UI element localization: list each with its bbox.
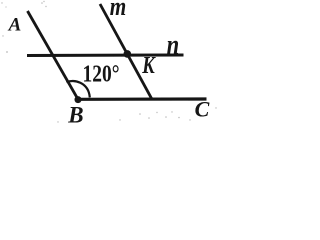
svg-text:120°: 120° (83, 61, 120, 87)
svg-text:C: C (195, 96, 210, 121)
svg-text:A: A (8, 15, 22, 36)
angle arc at B (67, 81, 90, 97)
line AB (transversal from A down to B) (28, 11, 79, 99)
svg-text:m: m (110, 0, 127, 21)
line m (transversal from top through K to BC) (100, 4, 152, 99)
line n (horizontal line through K) (27, 54, 184, 58)
point K (dot at intersection of m and n) (124, 50, 132, 58)
point B (dot at vertex B) (75, 96, 82, 103)
scan noise speckles (1, 1, 216, 123)
ray BC (horizontal ray from B to C) (78, 97, 207, 101)
svg-text:B: B (67, 102, 83, 124)
svg-text:K: K (141, 52, 156, 79)
svg-text:n: n (167, 28, 180, 60)
